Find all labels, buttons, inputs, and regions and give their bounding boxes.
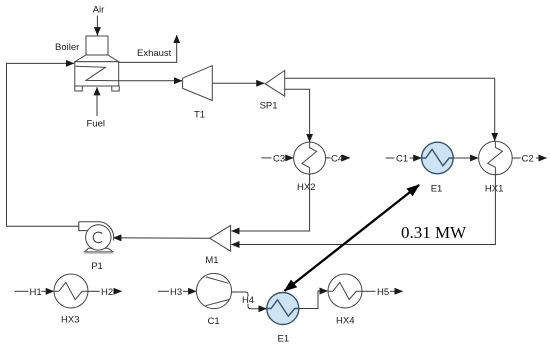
svg-text:H5: H5	[377, 287, 389, 298]
wire HX1 bottom to mixer M1	[231, 175, 495, 245]
wire H1 inlet segment	[14, 290, 28, 292]
wire C1 arrow into E1	[410, 157, 422, 159]
heat exchanger HX1	[479, 141, 513, 175]
wire compressor outlet H4 line down to E1 bottom	[232, 292, 248, 296]
svg-text:H1: H1	[30, 287, 42, 298]
svg-text:C3: C3	[273, 153, 285, 164]
wire mixer to pump	[113, 237, 210, 240]
wire C3 inlet segment	[261, 157, 271, 159]
svg-text:Air: Air	[93, 5, 105, 16]
wire H2 outlet arrow	[114, 290, 122, 292]
svg-text:C1: C1	[396, 153, 408, 164]
svg-text:HX2: HX2	[297, 182, 315, 193]
svg-text:0.31 MW: 0.31 MW	[401, 223, 467, 242]
splitter SP1	[265, 70, 285, 96]
wire exhaust from boiler up	[119, 35, 177, 62]
svg-text:C2: C2	[522, 153, 534, 164]
wire C4 outlet segment	[326, 157, 331, 159]
wire fuel inlet arrow	[96, 87, 98, 116]
compressor C1	[196, 273, 231, 308]
wire HX2 bottom to mixer M1	[231, 174, 309, 231]
wire heat duty double arrow between E1 units	[285, 185, 420, 291]
heat exchanger E1 (bottom, blue)	[267, 293, 299, 325]
wire turbine to splitter	[212, 82, 264, 84]
mixer M1	[210, 225, 231, 251]
svg-text:Fuel: Fuel	[87, 119, 105, 130]
svg-text:HX4: HX4	[336, 316, 354, 327]
svg-text:H2: H2	[101, 287, 113, 298]
svg-text:Boiler: Boiler	[55, 42, 79, 53]
heat exchanger HX2	[294, 142, 326, 174]
wire C3 arrow into HX2	[286, 157, 293, 159]
wire E1 bottom outlet up into HX4	[299, 291, 328, 309]
heat exchanger HX3	[54, 274, 88, 308]
svg-text:C4: C4	[331, 153, 343, 164]
wire H3 inlet segment	[158, 290, 169, 292]
wire H1 arrow into HX3	[42, 290, 54, 292]
svg-text:SP1: SP1	[260, 101, 278, 112]
wire H5 outlet segment	[362, 290, 376, 292]
wire H2 outlet segment	[88, 290, 100, 292]
wire H3 arrow into C1	[183, 290, 196, 292]
wire C4 outlet arrow	[343, 157, 350, 159]
svg-text:C1: C1	[208, 316, 220, 327]
heat exchanger E1 (top, blue)	[422, 142, 454, 174]
wire air inlet arrow	[96, 16, 98, 36]
svg-text:H3: H3	[170, 287, 182, 298]
wire H5 outlet arrow	[390, 290, 403, 292]
boiler B1	[75, 36, 119, 91]
svg-text:E1: E1	[431, 184, 443, 195]
wire C2 outlet arrow	[536, 157, 547, 159]
svg-text:H4: H4	[242, 295, 254, 306]
svg-text:E1: E1	[278, 334, 290, 345]
wire splitter lower branch down to HX2 top	[285, 89, 310, 142]
svg-text:T1: T1	[194, 110, 205, 121]
svg-text:M1: M1	[205, 255, 218, 266]
wire splitter top branch to HX1 top	[285, 78, 495, 141]
wire steam boiler to turbine	[119, 80, 183, 82]
svg-text:Exhaust: Exhaust	[137, 48, 172, 59]
svg-text:HX1: HX1	[485, 184, 503, 195]
turbine T1	[183, 66, 213, 101]
wire E1 to HX1	[453, 157, 478, 159]
pump P1	[79, 222, 114, 254]
wire C1 stream inlet segment	[386, 157, 395, 159]
svg-text:HX3: HX3	[61, 315, 79, 326]
svg-text:P1: P1	[91, 261, 103, 272]
heat exchanger HX4	[328, 274, 362, 308]
wire feedwater loop: pump outlet up to boiler inlet	[7, 63, 79, 226]
wire C2 outlet segment	[512, 157, 521, 159]
